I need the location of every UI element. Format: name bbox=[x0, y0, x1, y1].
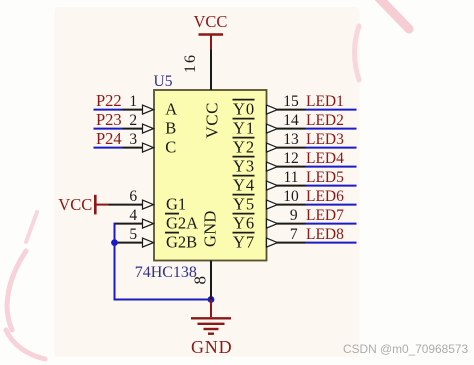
pin name Y1 overline bbox=[233, 118, 255, 120]
svg-text:13: 13 bbox=[283, 131, 299, 148]
pin 3 line bbox=[123, 147, 144, 149]
pin 1 line bbox=[123, 109, 144, 111]
svg-text:16: 16 bbox=[182, 53, 199, 73]
ground bar 4 bbox=[208, 333, 214, 335]
svg-text:LED7: LED7 bbox=[306, 207, 344, 224]
pin name Y6 overline bbox=[233, 213, 255, 215]
svg-text:LED2: LED2 bbox=[306, 112, 344, 129]
pin 3 arrowhead bbox=[143, 143, 154, 152]
IC body U5 74HC138 bbox=[154, 90, 267, 261]
svg-text:7: 7 bbox=[290, 226, 298, 243]
svg-text:U5: U5 bbox=[154, 73, 173, 90]
svg-text:CSDN @m0_70968573: CSDN @m0_70968573 bbox=[343, 342, 468, 356]
svg-text:6: 6 bbox=[129, 188, 137, 205]
svg-text:10: 10 bbox=[283, 188, 299, 205]
pin 10 line bbox=[277, 204, 306, 206]
svg-text:Y1: Y1 bbox=[233, 119, 255, 138]
watermark stroke left-middle bbox=[26, 212, 37, 242]
wire net P23 bbox=[94, 128, 123, 130]
pin name G2B overline bbox=[165, 232, 179, 234]
svg-text:LED8: LED8 bbox=[306, 226, 344, 243]
pin 4 arrowhead bbox=[143, 219, 154, 228]
power port VCC left bar bbox=[94, 195, 97, 215]
pin 15 arrowhead bbox=[267, 105, 278, 114]
svg-text:A: A bbox=[165, 100, 177, 119]
svg-text:LED4: LED4 bbox=[306, 150, 344, 167]
pin 15 line bbox=[277, 109, 306, 111]
watermark arc bottom-left bbox=[7, 251, 26, 330]
svg-text:P24: P24 bbox=[96, 129, 122, 148]
wire net LED8 bbox=[306, 242, 357, 244]
pin name Y4 overline bbox=[233, 175, 255, 177]
pin name Y5 overline bbox=[233, 194, 255, 196]
svg-text:8: 8 bbox=[191, 276, 210, 285]
svg-text:15: 15 bbox=[283, 93, 299, 110]
pin 7 arrowhead bbox=[267, 238, 278, 247]
svg-text:9: 9 bbox=[290, 207, 298, 224]
ground stem bbox=[210, 300, 212, 318]
svg-text:5: 5 bbox=[129, 226, 137, 243]
wire net LED4 bbox=[306, 166, 357, 168]
power port VCC left stem bbox=[95, 204, 108, 206]
pin 6 line bbox=[109, 204, 144, 206]
pin 14 line bbox=[277, 128, 306, 130]
pin 9 line bbox=[277, 223, 306, 225]
watermark arc top-right bbox=[355, 26, 360, 80]
svg-text:VCC: VCC bbox=[203, 102, 222, 138]
svg-text:Y0: Y0 bbox=[233, 100, 255, 119]
pin 6 arrowhead bbox=[143, 200, 154, 209]
svg-text:12: 12 bbox=[283, 150, 299, 167]
svg-text:LED1: LED1 bbox=[306, 93, 344, 110]
svg-text:Y4: Y4 bbox=[233, 176, 255, 195]
pin 12 arrowhead bbox=[267, 162, 278, 171]
pin 9 arrowhead bbox=[267, 219, 278, 228]
power port VCC top stem bbox=[210, 35, 212, 50]
svg-text:LED6: LED6 bbox=[306, 188, 344, 205]
pin 5 arrowhead bbox=[143, 238, 154, 247]
svg-text:VCC: VCC bbox=[58, 195, 92, 214]
pin name Y0 overline bbox=[233, 99, 255, 101]
wire blue G2A/G2B loop bbox=[115, 223, 212, 300]
pin 7 line bbox=[277, 242, 306, 244]
junction dot at pin 5 bbox=[111, 239, 118, 246]
ground bar 2 bbox=[198, 323, 225, 325]
wire net LED7 bbox=[306, 223, 357, 225]
pin 13 line bbox=[277, 147, 306, 149]
svg-text:14: 14 bbox=[283, 112, 299, 129]
svg-text:GND: GND bbox=[201, 210, 220, 247]
schematic canvas background bbox=[55, 7, 360, 357]
svg-text:C: C bbox=[165, 138, 176, 157]
svg-text:Y6: Y6 bbox=[233, 214, 255, 233]
pin 11 arrowhead bbox=[267, 181, 278, 190]
svg-text:Y5: Y5 bbox=[233, 195, 255, 214]
svg-text:VCC: VCC bbox=[194, 12, 228, 31]
pin 11 line bbox=[277, 185, 306, 187]
svg-text:G1: G1 bbox=[166, 195, 186, 214]
pin 2 line bbox=[123, 128, 144, 130]
pin 2 arrowhead bbox=[143, 124, 154, 133]
power port VCC top bar bbox=[199, 33, 224, 36]
svg-text:3: 3 bbox=[129, 131, 137, 148]
svg-text:B: B bbox=[165, 119, 176, 138]
wire net LED1 bbox=[306, 109, 357, 111]
pin 5 line bbox=[115, 242, 144, 244]
pin name Y2 overline bbox=[233, 137, 255, 139]
svg-text:LED3: LED3 bbox=[306, 131, 344, 148]
svg-text:74HC138: 74HC138 bbox=[135, 264, 197, 281]
svg-text:G2A: G2A bbox=[166, 214, 198, 233]
pin 10 arrowhead bbox=[267, 200, 278, 209]
wire net LED2 bbox=[306, 128, 357, 130]
pin 4 line bbox=[115, 223, 144, 225]
pin name G2A overline bbox=[165, 213, 179, 215]
svg-text:Y3: Y3 bbox=[233, 157, 255, 176]
pin 13 arrowhead bbox=[267, 143, 278, 152]
pin name Y3 overline bbox=[233, 156, 255, 158]
ground bar 3 bbox=[204, 328, 219, 330]
watermark arc bottom bbox=[6, 330, 45, 359]
svg-text:LED5: LED5 bbox=[306, 169, 344, 186]
svg-text:4: 4 bbox=[129, 207, 137, 224]
svg-text:GND: GND bbox=[191, 337, 232, 357]
svg-text:Y2: Y2 bbox=[233, 138, 255, 157]
pin 16 line bbox=[210, 49, 212, 90]
junction dot at GND node bbox=[208, 296, 215, 303]
pin name Y7 overline bbox=[233, 232, 255, 234]
pin 12 line bbox=[277, 166, 306, 168]
wire net LED5 bbox=[306, 185, 357, 187]
wire net LED6 bbox=[306, 204, 357, 206]
pin 8 line bbox=[210, 261, 212, 300]
svg-text:1: 1 bbox=[129, 93, 137, 110]
svg-text:G2B: G2B bbox=[166, 233, 197, 252]
pin 1 arrowhead bbox=[143, 105, 154, 114]
wire net P24 bbox=[94, 147, 123, 149]
svg-text:2: 2 bbox=[129, 112, 137, 129]
wire net P22 bbox=[94, 109, 123, 111]
svg-text:11: 11 bbox=[284, 169, 299, 186]
pin 14 arrowhead bbox=[267, 124, 278, 133]
svg-text:P23: P23 bbox=[96, 110, 122, 129]
ground bar 1 bbox=[191, 317, 231, 319]
wire net LED3 bbox=[306, 147, 357, 149]
svg-text:P22: P22 bbox=[96, 91, 122, 110]
svg-text:Y7: Y7 bbox=[233, 233, 255, 252]
watermark stroke top-right diagonal bbox=[379, 0, 409, 29]
